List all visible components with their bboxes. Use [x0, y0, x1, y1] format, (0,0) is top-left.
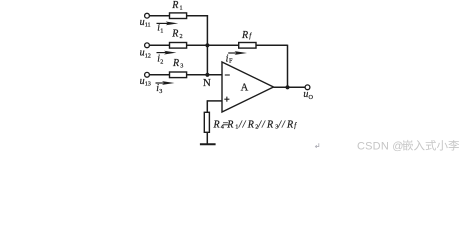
svg-text:13: 13 [145, 81, 151, 88]
svg-text:12: 12 [145, 52, 151, 59]
svg-text:A: A [241, 82, 249, 93]
svg-text:2: 2 [160, 58, 163, 65]
svg-text:CSDN @: CSDN @ [357, 141, 404, 153]
svg-text:R: R [247, 119, 254, 130]
svg-text:R: R [171, 0, 178, 11]
svg-text://: // [257, 119, 266, 130]
svg-text:11: 11 [145, 21, 151, 28]
svg-text:3: 3 [159, 88, 162, 95]
svg-text:2: 2 [180, 33, 183, 40]
svg-text:R: R [266, 119, 273, 130]
svg-text:1: 1 [160, 28, 163, 35]
svg-text:R: R [172, 58, 179, 69]
svg-text:3: 3 [180, 63, 183, 70]
svg-text:N: N [203, 77, 211, 89]
svg-text:R: R [213, 119, 220, 130]
svg-text:R: R [286, 119, 293, 130]
svg-text:1: 1 [180, 4, 183, 11]
svg-text://: // [277, 119, 286, 130]
svg-text:O: O [309, 94, 314, 101]
svg-text:R: R [226, 119, 233, 130]
svg-text:R: R [171, 29, 178, 40]
svg-text:R: R [241, 30, 248, 41]
svg-text://: // [238, 119, 247, 130]
svg-text:F: F [229, 57, 233, 64]
